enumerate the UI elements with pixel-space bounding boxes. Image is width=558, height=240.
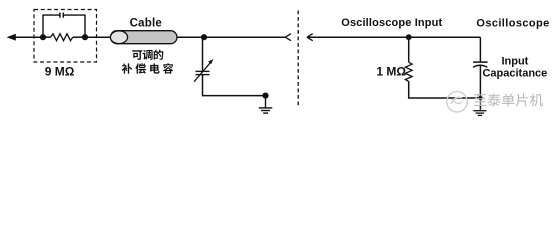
svg-text:Oscilloscope Input: Oscilloscope Input: [341, 17, 442, 29]
svg-text:Capacitance: Capacitance: [482, 68, 547, 80]
wire (rail corner down to C3): [479, 37, 481, 62]
label kediaode (adjustable): [132, 50, 163, 60]
capacitor C1 (probe compensation, in box): [60, 13, 63, 18]
wire (box to cable): [85, 36, 111, 38]
svg-text:Oscilloscope: Oscilloscope: [476, 17, 549, 29]
probe tip arrow: [7, 34, 44, 41]
svg-text:Input: Input: [501, 55, 528, 67]
node D junction dot: [262, 93, 268, 99]
svg-text:9 MΩ: 9 MΩ: [45, 65, 75, 79]
watermark text: [474, 94, 543, 107]
cable body: [111, 31, 178, 44]
node B junction dot: [82, 34, 88, 40]
label buchang dianrong (compensation capacitor): [122, 63, 174, 74]
svg-text:Cable: Cable: [130, 18, 162, 30]
dashed probe body box: [34, 10, 97, 63]
variable capacitor adjustment arrow: [194, 59, 213, 82]
wire (node A to resistor): [43, 36, 51, 38]
wire (C3 down to ground): [479, 66, 481, 110]
ground (scope side): [473, 111, 486, 116]
wire capacitor loop right: [63, 15, 85, 37]
node C junction dot: [201, 34, 207, 40]
dashed separator line: [297, 11, 299, 108]
wire (resistor to node B): [73, 36, 85, 38]
watermark logo circle: [447, 92, 467, 112]
wire (R2 to bottom rail): [409, 81, 481, 98]
wire (cable to arrow): [177, 36, 285, 38]
node F junction dot: [478, 96, 482, 100]
capacitor C3 input capacitance: [473, 62, 488, 67]
node E junction dot: [406, 34, 412, 40]
svg-text:1 MΩ: 1 MΩ: [376, 64, 406, 78]
wire (node C down): [202, 37, 204, 71]
variable capacitor C2 plates: [196, 71, 210, 74]
wire (node E down): [408, 37, 410, 62]
resistor R1 9 M ohm: [51, 34, 73, 41]
wire (scope input rail): [307, 36, 480, 38]
cable left end cap: [110, 31, 127, 44]
wire (C2 to ground run): [203, 75, 266, 96]
resistor R2 1 M ohm: [405, 62, 412, 81]
ground (probe side): [259, 96, 273, 114]
open arrowhead (right half, from probe): [307, 34, 313, 41]
open arrowhead (left half, to scope): [285, 34, 291, 41]
wire capacitor loop left: [43, 15, 60, 37]
node A junction dot: [40, 34, 46, 40]
